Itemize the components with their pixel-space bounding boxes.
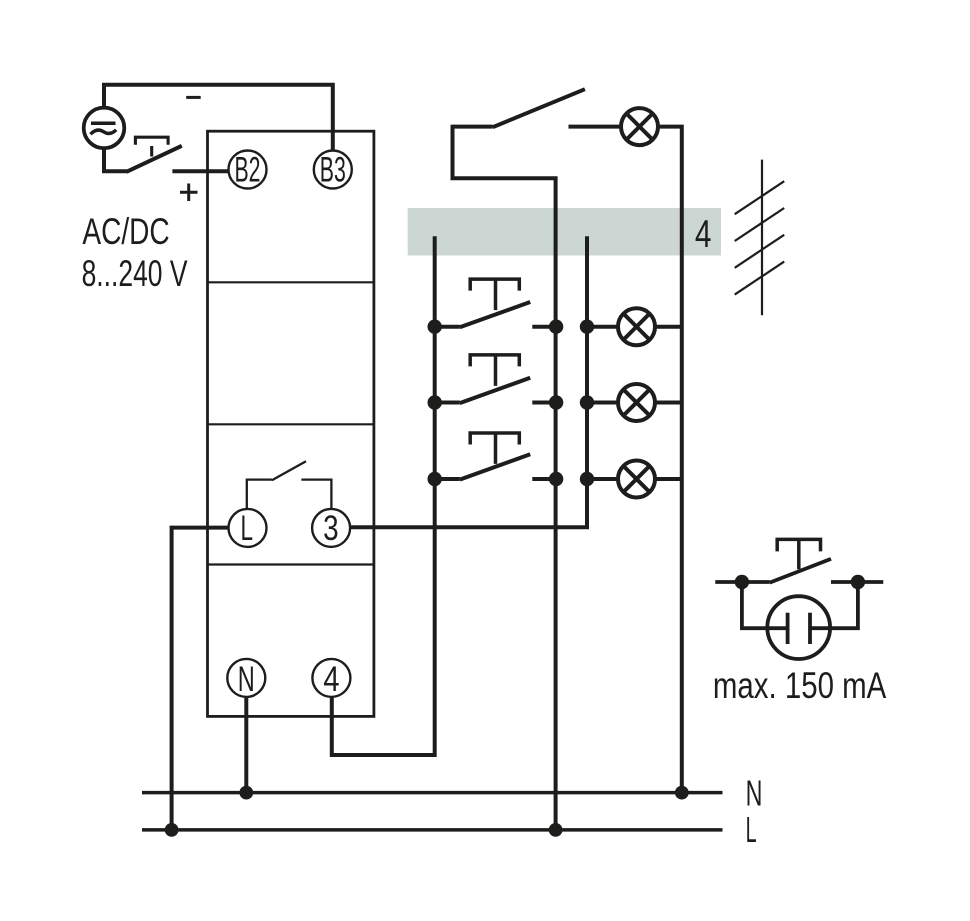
- svg-text:8...240 V: 8...240 V: [82, 253, 188, 294]
- svg-text:B3: B3: [320, 151, 346, 190]
- svg-text:max. 150 mA: max. 150 mA: [713, 665, 887, 706]
- svg-text:L: L: [240, 509, 253, 548]
- svg-text:N: N: [238, 660, 255, 699]
- svg-text:3: 3: [323, 509, 339, 548]
- svg-text:L: L: [746, 809, 757, 850]
- svg-text:AC/DC: AC/DC: [82, 211, 169, 252]
- svg-text:4: 4: [323, 660, 339, 699]
- svg-text:4: 4: [695, 213, 712, 256]
- svg-text:N: N: [746, 773, 763, 814]
- svg-text:B2: B2: [235, 151, 261, 190]
